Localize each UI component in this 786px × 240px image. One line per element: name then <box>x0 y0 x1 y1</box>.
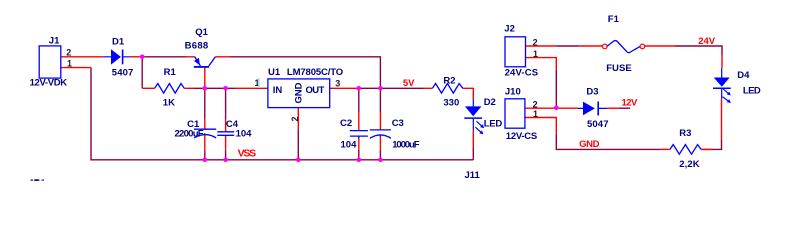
svg-text:U1: U1 <box>268 67 281 78</box>
svg-text:2,2K: 2,2K <box>679 159 699 170</box>
svg-text:1K: 1K <box>163 98 175 109</box>
svg-text:D3: D3 <box>586 87 598 98</box>
svg-text:3: 3 <box>335 78 340 88</box>
svg-text:IN: IN <box>273 85 283 96</box>
svg-text:J2: J2 <box>504 24 515 35</box>
svg-text:R3: R3 <box>679 128 691 139</box>
svg-text:330: 330 <box>443 98 459 109</box>
svg-text:D2: D2 <box>484 97 496 108</box>
svg-text:FUSE: FUSE <box>606 63 632 74</box>
svg-text:J1: J1 <box>49 36 60 47</box>
svg-text:2: 2 <box>290 116 300 121</box>
svg-text:LED: LED <box>484 119 503 130</box>
svg-text:GND: GND <box>294 82 305 103</box>
svg-text:5047: 5047 <box>587 119 609 130</box>
svg-text:12V: 12V <box>622 98 638 109</box>
svg-text:OUT: OUT <box>306 85 325 96</box>
svg-text:2: 2 <box>66 48 71 58</box>
svg-text:LM7805C/TO: LM7805C/TO <box>287 67 343 78</box>
svg-text:J10: J10 <box>505 86 521 97</box>
svg-text:GND: GND <box>579 139 600 150</box>
svg-text:2: 2 <box>533 37 538 47</box>
svg-text:104: 104 <box>341 140 358 151</box>
svg-text:1: 1 <box>67 58 72 68</box>
svg-text:LED: LED <box>743 86 761 97</box>
svg-text:104: 104 <box>236 129 253 140</box>
svg-text:24V-CS: 24V-CS <box>505 68 538 79</box>
svg-text:1: 1 <box>533 109 538 119</box>
svg-text:12V-CS: 12V-CS <box>506 131 537 142</box>
svg-text:5407: 5407 <box>112 67 134 78</box>
svg-text:C2: C2 <box>340 118 352 129</box>
svg-text:5V: 5V <box>403 78 415 89</box>
svg-text:VSS: VSS <box>238 148 257 160</box>
svg-text:F1: F1 <box>608 14 620 25</box>
svg-text:J11: J11 <box>465 170 481 181</box>
svg-text:Q1: Q1 <box>195 27 208 38</box>
svg-text:C3: C3 <box>392 118 404 129</box>
svg-text:12V-VDK: 12V-VDK <box>30 78 68 89</box>
svg-text:D4: D4 <box>737 70 750 81</box>
svg-text:D1: D1 <box>112 36 125 47</box>
svg-text:1: 1 <box>533 49 538 59</box>
svg-text:1000uF: 1000uF <box>392 140 419 151</box>
svg-text:B688: B688 <box>185 41 209 52</box>
svg-text:R1: R1 <box>164 67 177 78</box>
svg-text:R2: R2 <box>443 76 455 87</box>
svg-text:2200uF: 2200uF <box>175 129 204 140</box>
svg-text:24V: 24V <box>698 36 715 47</box>
